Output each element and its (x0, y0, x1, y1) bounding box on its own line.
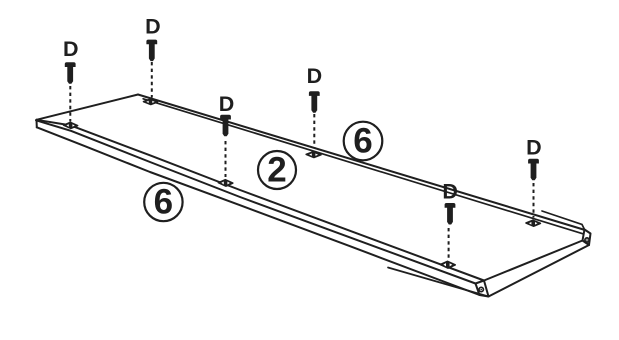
panel right end face bottom edge (489, 245, 590, 297)
screw D (4) head (309, 91, 320, 96)
dotted guide line (screw 4) (313, 114, 315, 149)
screw D (5) head (445, 203, 456, 208)
panel left end edge (37, 95, 139, 120)
back rail end dowel hole (585, 238, 589, 242)
screw D (2) head (146, 40, 157, 45)
svg-text:D: D (63, 37, 79, 61)
svg-text:D: D (307, 64, 323, 88)
back rail inner edge L2b (143, 99, 583, 234)
panel right end face top edge (484, 241, 583, 281)
back rail top edge L1b (138, 95, 585, 231)
screw D (1) shaft (67, 66, 73, 83)
svg-text:D: D (219, 92, 235, 116)
screw D (3) head (220, 115, 231, 120)
hole mark (back rail middle) (306, 152, 321, 158)
panel back edge (visible near right) (542, 211, 585, 230)
hole mark (front rail right) (440, 261, 455, 268)
back rail right end face (583, 230, 591, 246)
screw D (6) shaft (531, 163, 537, 180)
screw D (3) shaft (223, 119, 229, 136)
front rail top-front edge L2f (36, 120, 476, 283)
hole mark (front rail left) (64, 122, 78, 128)
dotted guide line (screw 1) (69, 86, 71, 122)
dotted guide line (screw 3) (225, 141, 227, 177)
hole mark (front rail middle) (218, 180, 232, 186)
circled part number 6 (bottom rail) (144, 183, 182, 222)
svg-text:D: D (145, 14, 161, 38)
front rail right end face (476, 281, 489, 297)
hole mark (back rail left) (144, 99, 158, 104)
panel bottom edge (visible near right) L4f (388, 268, 489, 297)
front rail bottom edge L3f (37, 127, 480, 295)
screw D (5) shaft (447, 207, 453, 224)
svg-text:2: 2 (267, 151, 286, 190)
svg-text:D: D (526, 136, 542, 160)
svg-text:6: 6 (154, 183, 173, 222)
panel left tip vertical edge (36, 120, 38, 128)
screw D (6) head (528, 159, 539, 164)
hole mark (back rail right) (526, 220, 540, 226)
dotted guide line (screw 6) (533, 183, 535, 218)
svg-text:6: 6 (353, 122, 372, 161)
screw D (2) shaft (149, 44, 155, 61)
front rail back edge L1f (hole line) (37, 120, 485, 281)
svg-text:D: D (442, 180, 458, 204)
front rail end dowel hole (479, 287, 483, 291)
dotted guide line (screw 5) (448, 228, 450, 260)
dotted guide line (screw 2) (151, 62, 153, 98)
circled part number 2 (panel) (258, 151, 296, 190)
screw D (4) shaft (311, 95, 317, 112)
screw D (1) head (65, 62, 76, 67)
circled part number 6 (top rail) (344, 122, 383, 161)
